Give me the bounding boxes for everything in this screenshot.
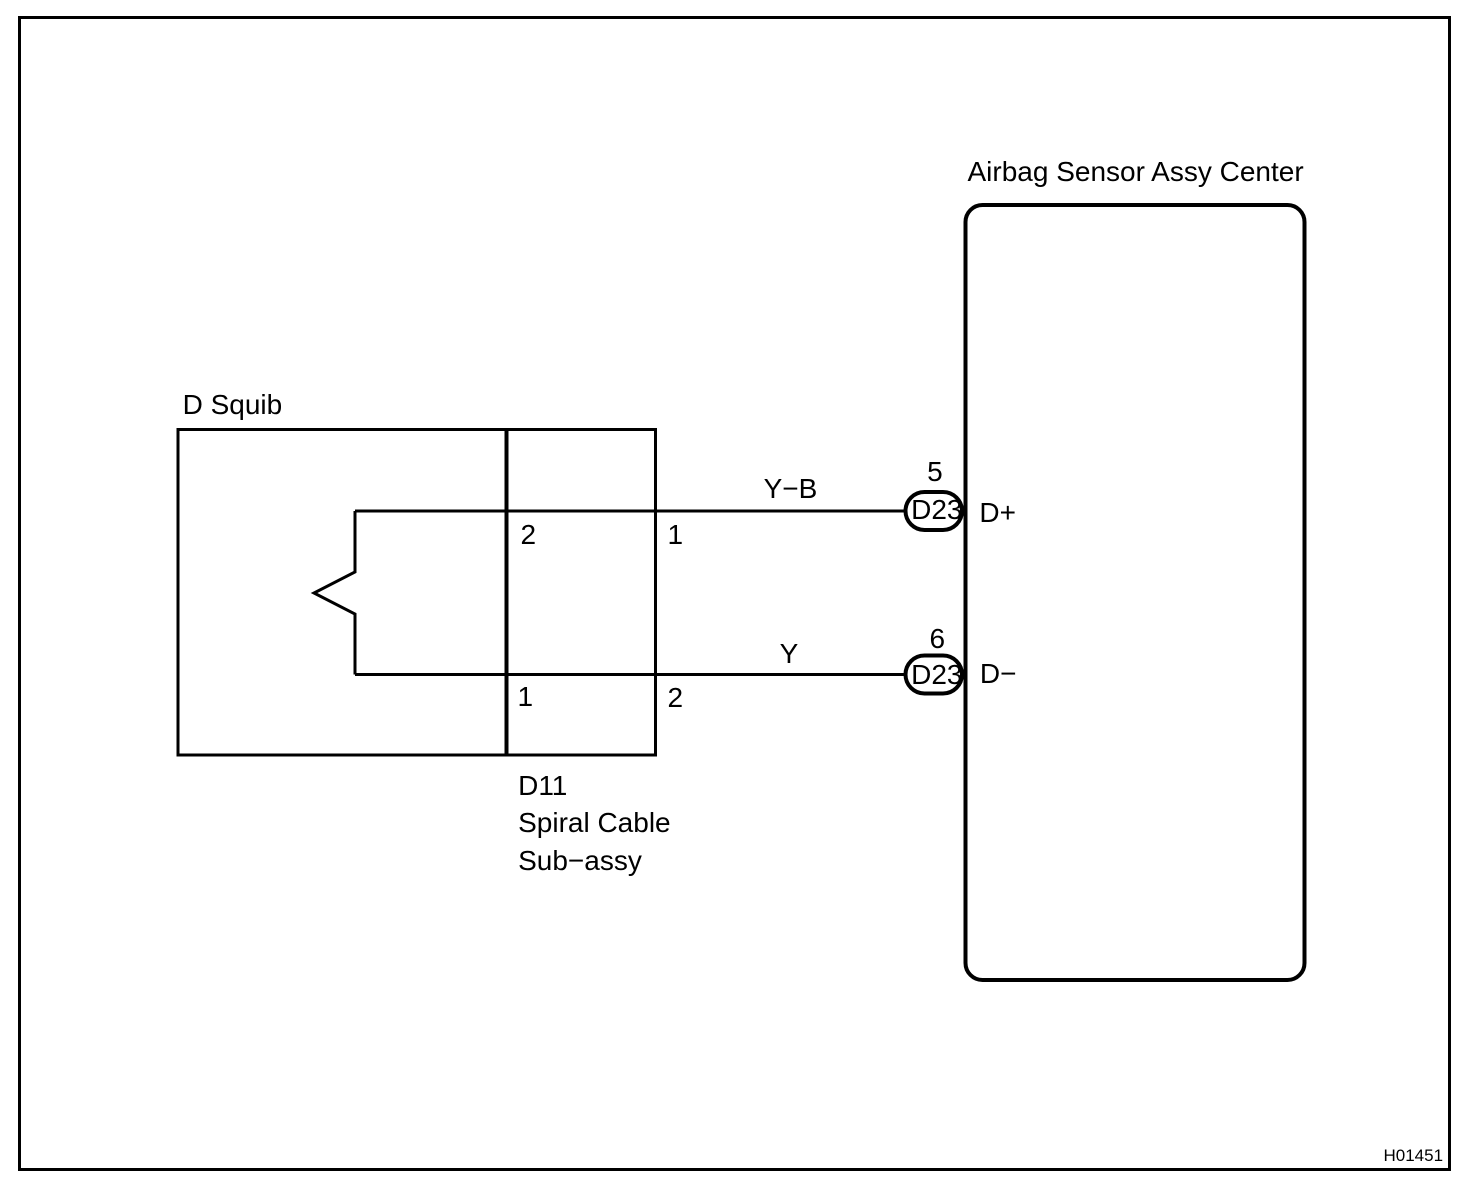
figure number H01451 xyxy=(1384,1147,1444,1164)
label: Airbag Sensor Assy Center xyxy=(968,158,1304,186)
pin number 5 (above D23 oval) xyxy=(927,458,943,486)
connector label D23 (top oval) xyxy=(911,496,962,524)
connector D11 spiral cable box outline xyxy=(507,430,656,756)
pin number 2 (D11 top-left cell) xyxy=(521,521,537,549)
connector oval D23 (pin 5) xyxy=(906,492,963,530)
connector oval D23 (pin 6) xyxy=(906,656,963,694)
terminal label D+ xyxy=(979,499,1016,527)
label: D Squib xyxy=(183,391,283,419)
label: D11 Spiral Cable Sub-assy xyxy=(518,767,671,880)
wire Y : squib pin1 / D11 pin2 to D23 pin6 xyxy=(355,673,904,676)
pin number 2 (right of D11 bottom row) xyxy=(668,684,684,712)
wire label Y xyxy=(780,640,799,668)
squib element (inflator bridge symbol inside D Squib) xyxy=(314,511,355,675)
connector D Squib box outline xyxy=(178,430,506,756)
wire Y-B : squib pin2 / D11 pin1 to D23 pin5 xyxy=(355,510,904,513)
pin number 6 (above D23 oval) xyxy=(930,625,946,653)
terminal label D- xyxy=(980,660,1017,688)
pin number 1 (right of D11 top row) xyxy=(668,521,684,549)
pin number 1 (D11 bottom-left cell) xyxy=(518,683,534,711)
Airbag Sensor Assy Center box xyxy=(966,205,1305,980)
connector label D23 (bottom oval) xyxy=(911,661,962,689)
wire label Y-B xyxy=(764,475,818,503)
